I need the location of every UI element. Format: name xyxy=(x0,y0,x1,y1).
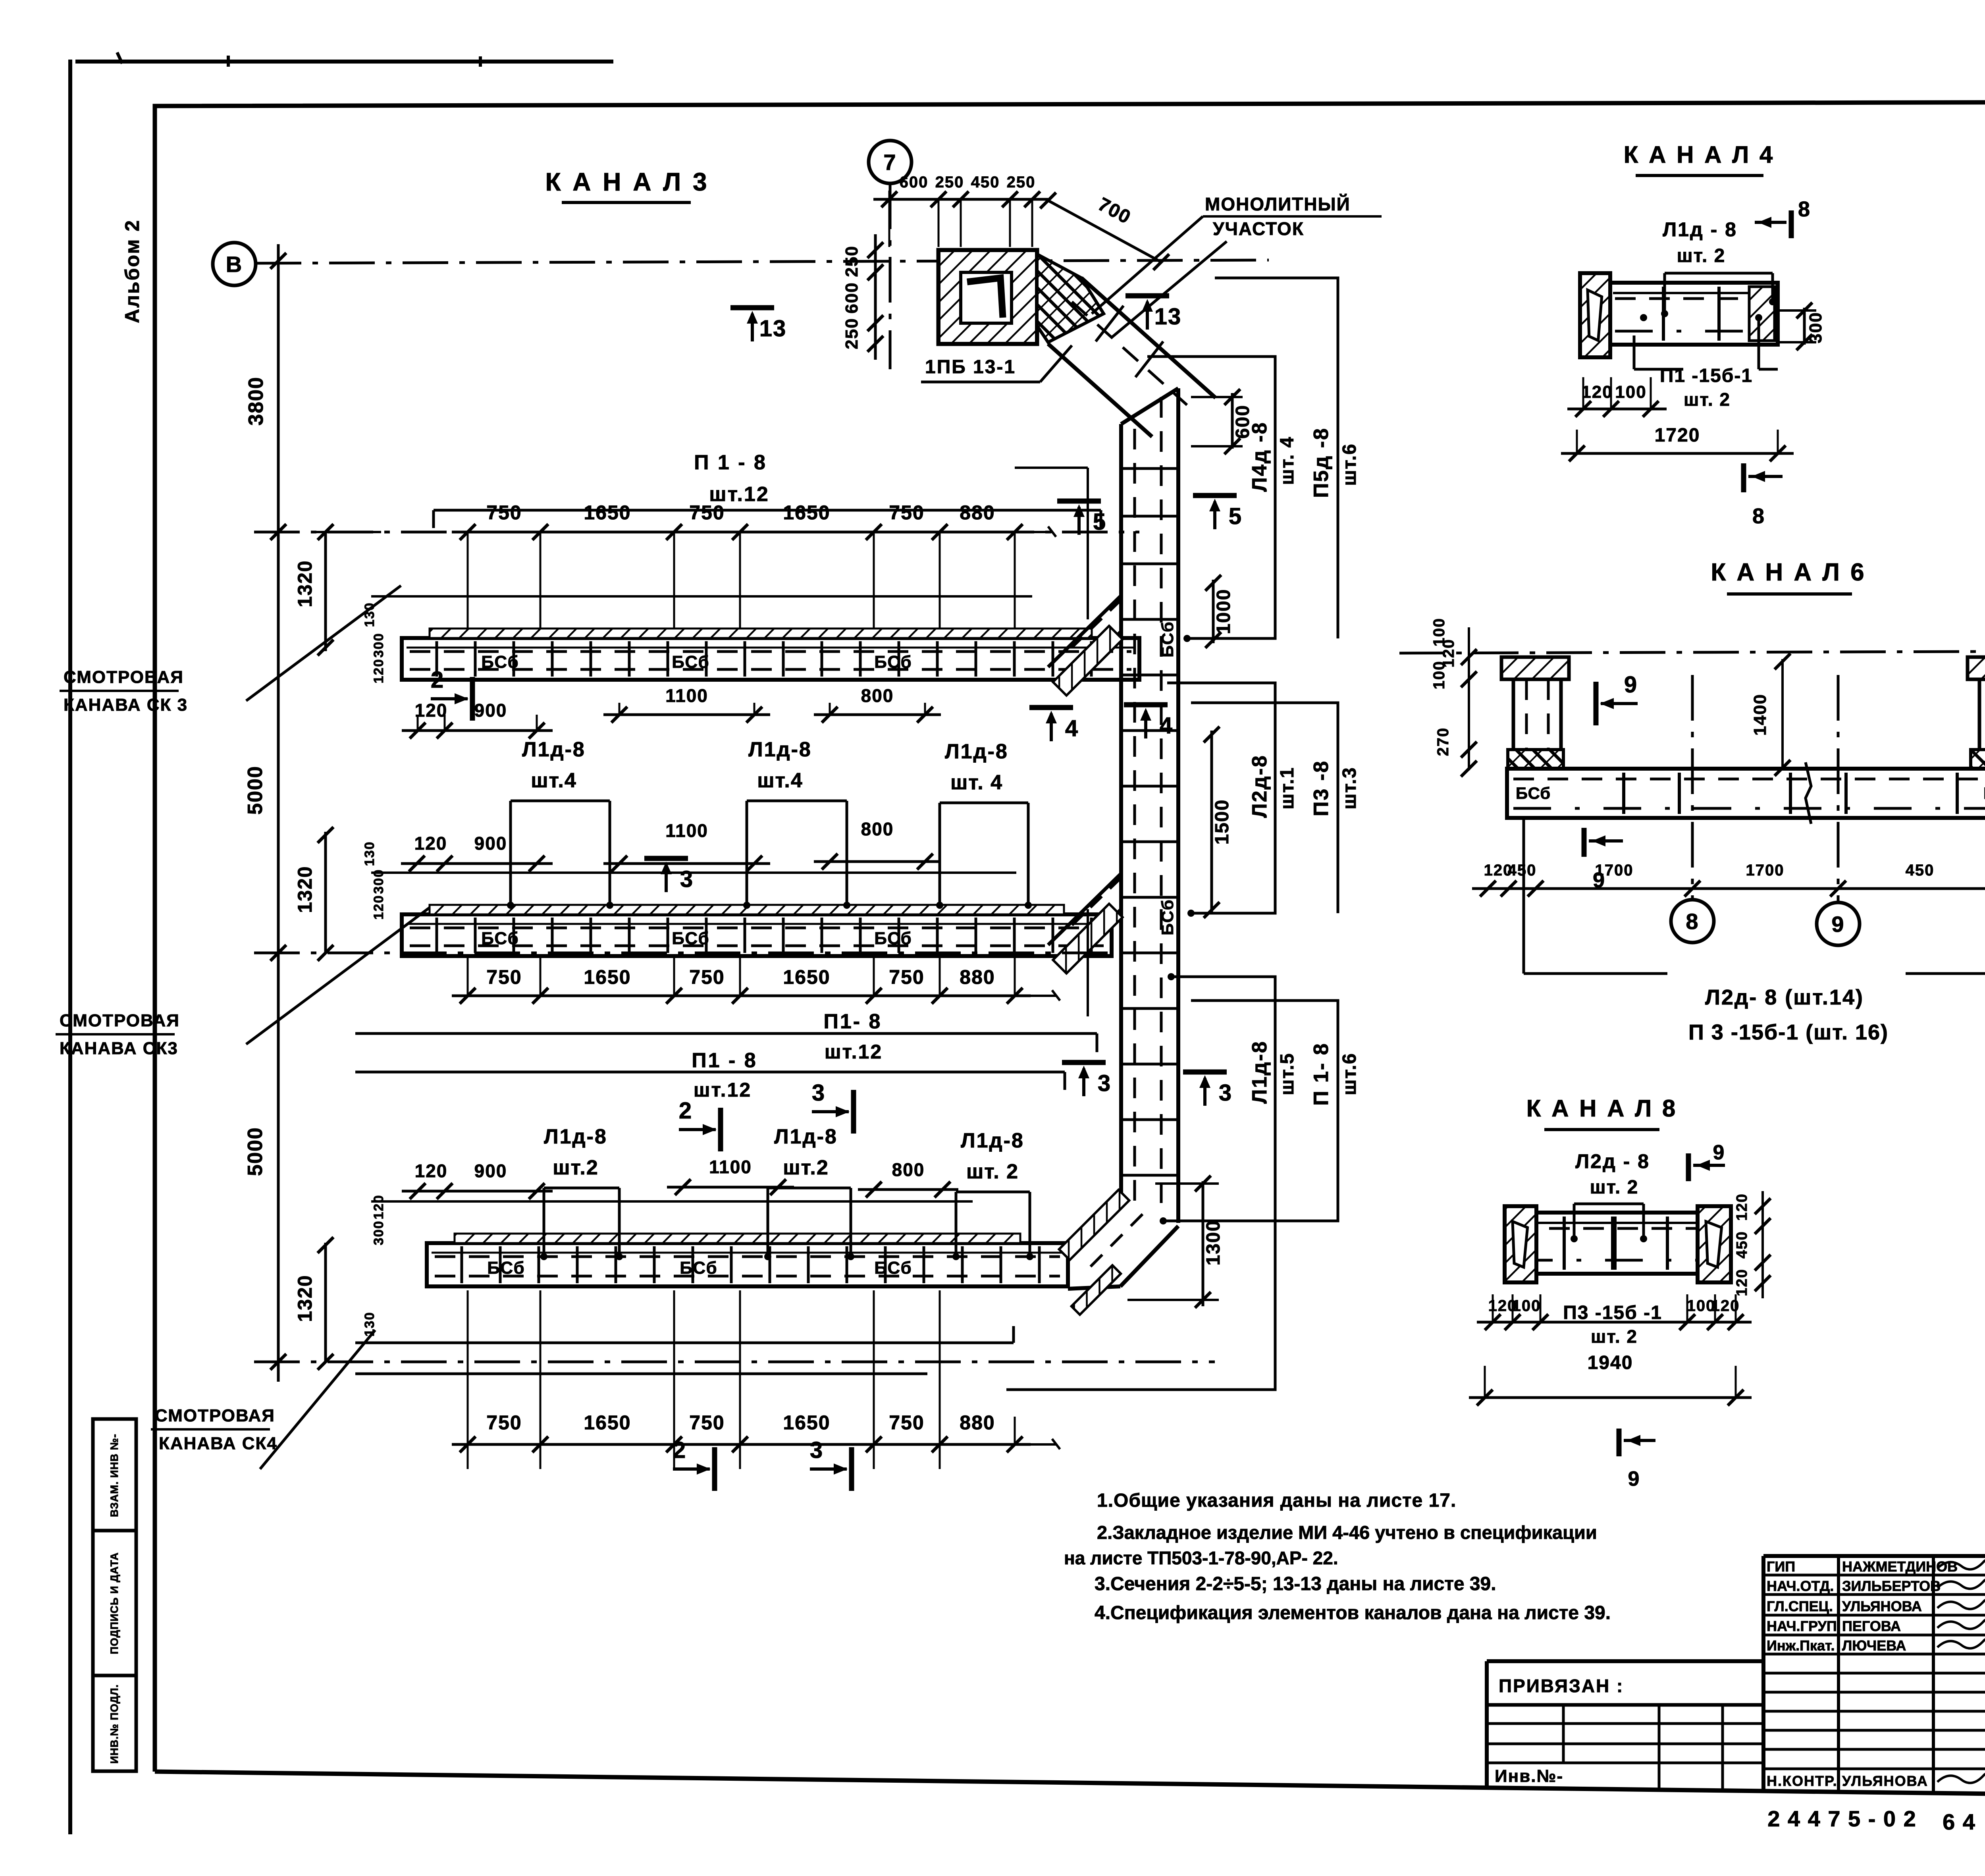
leader monolithic xyxy=(1092,216,1203,314)
leader SK4 xyxy=(260,1330,375,1469)
svg-text:1ПБ 13-1: 1ПБ 13-1 xyxy=(925,357,1016,378)
frame bottom line xyxy=(155,1772,1985,1801)
svg-text:Н.КОНТР.: Н.КОНТР. xyxy=(1767,1773,1838,1789)
svg-text:120: 120 xyxy=(371,659,386,684)
K4 dim 300 right xyxy=(1803,308,1806,345)
svg-text:ИНВ.№ ПОДЛ.: ИНВ.№ ПОДЛ. xyxy=(108,1684,120,1764)
svg-text:900: 900 xyxy=(474,700,507,721)
dim chain band C bottom xyxy=(452,1443,1031,1446)
svg-text:1650: 1650 xyxy=(783,501,830,524)
svg-text:П 1- 8: П 1- 8 xyxy=(1310,1042,1333,1105)
svg-text:900: 900 xyxy=(474,833,507,854)
page left edge line xyxy=(68,60,72,1834)
svg-text:750: 750 xyxy=(486,1411,522,1434)
svg-text:3: 3 xyxy=(812,1080,825,1106)
svg-text:БСб: БСб xyxy=(1516,784,1551,802)
signature squiggles xyxy=(1937,1558,1985,1569)
section flag 3 left lower xyxy=(1062,1060,1106,1065)
svg-text:Альбом 2: Альбом 2 xyxy=(121,219,143,323)
svg-text:1650: 1650 xyxy=(783,1411,830,1434)
svg-text:П3 -15б -1: П3 -15б -1 xyxy=(1563,1302,1662,1323)
svg-text:ЛЮЧЕВА: ЛЮЧЕВА xyxy=(1842,1637,1906,1654)
svg-text:шт.3: шт.3 xyxy=(1339,767,1360,809)
svg-text:880: 880 xyxy=(960,501,995,524)
svg-text:НАЧ.ОТД.: НАЧ.ОТД. xyxy=(1767,1578,1834,1594)
bracket mid labels xyxy=(1167,683,1275,913)
trench line above band C xyxy=(371,1200,973,1203)
svg-text:250: 250 xyxy=(1007,174,1036,191)
svg-text:шт. 2: шт. 2 xyxy=(1684,389,1731,410)
svg-text:800: 800 xyxy=(861,685,894,706)
svg-text:120: 120 xyxy=(1734,1269,1750,1296)
trench line above band B xyxy=(371,871,1016,874)
K6 band break mark xyxy=(1806,762,1811,824)
svg-text:9: 9 xyxy=(1713,1141,1725,1164)
svg-text:9: 9 xyxy=(1831,912,1844,937)
label bracket box xyxy=(939,803,941,905)
svg-text:ГЛ.СПЕЦ.: ГЛ.СПЕЦ. xyxy=(1767,1598,1833,1614)
dim chain above square 600 250 450 250 xyxy=(873,198,1048,201)
svg-text:ПРИВЯЗАН :: ПРИВЯЗАН : xyxy=(1499,1675,1624,1696)
svg-text:шт. 2: шт. 2 xyxy=(966,1160,1019,1183)
leader 1PB xyxy=(1040,345,1072,382)
svg-text:СМОТРОВАЯ: СМОТРОВАЯ xyxy=(64,667,184,687)
section flag 3 mid xyxy=(644,856,688,861)
svg-text:450: 450 xyxy=(1734,1231,1750,1258)
row2 dims mid xyxy=(401,862,553,865)
svg-text:4: 4 xyxy=(1160,713,1173,738)
leader SK3-2 xyxy=(246,905,433,1044)
svg-text:на листе ТП503-1-78-90,АР- 22.: на листе ТП503-1-78-90,АР- 22. xyxy=(1064,1548,1338,1568)
svg-text:ВЗАМ. ИНВ №-: ВЗАМ. ИНВ №- xyxy=(108,1434,120,1517)
K6 left wall xyxy=(1512,679,1515,750)
svg-text:БСб: БСб xyxy=(874,1258,912,1278)
svg-text:600: 600 xyxy=(900,174,929,191)
svg-text:Л1д-8: Л1д-8 xyxy=(748,738,812,761)
svg-text:1650: 1650 xyxy=(584,501,631,524)
svg-text:5: 5 xyxy=(1229,503,1242,529)
section flag 2 under band A xyxy=(470,677,475,721)
leader SK3-1 xyxy=(246,586,401,701)
svg-text:100: 100 xyxy=(1512,1297,1541,1315)
svg-text:ПЕГОВА: ПЕГОВА xyxy=(1842,1618,1901,1634)
bracket band A label xyxy=(434,509,1101,512)
svg-text:БСб: БСб xyxy=(481,652,519,672)
svg-text:Л1д-8: Л1д-8 xyxy=(522,738,586,761)
svg-text:100: 100 xyxy=(1615,382,1646,402)
svg-text:7: 7 xyxy=(883,150,896,175)
svg-text:2.Закладное изделие МИ 4-46 уч: 2.Закладное изделие МИ 4-46 учтено в спе… xyxy=(1097,1522,1597,1543)
K6 flag 9 top xyxy=(1594,682,1599,725)
svg-text:300: 300 xyxy=(371,1220,386,1246)
svg-text:1000: 1000 xyxy=(1213,589,1234,634)
svg-text:450: 450 xyxy=(1508,862,1537,879)
svg-text:1650: 1650 xyxy=(783,966,830,988)
svg-text:Л2д - 8: Л2д - 8 xyxy=(1575,1150,1650,1172)
svg-text:900: 900 xyxy=(474,1161,507,1181)
svg-text:750: 750 xyxy=(889,501,924,524)
svg-text:9: 9 xyxy=(1628,1467,1640,1490)
label bracket box xyxy=(509,801,512,905)
band A dividers xyxy=(436,641,438,677)
section flag 3 right lower xyxy=(1183,1070,1227,1075)
dim 1300 bottom right xyxy=(1202,1181,1204,1306)
svg-text:БСб: БСб xyxy=(680,1258,717,1278)
svg-text:К А Н А Л 4: К А Н А Л 4 xyxy=(1624,141,1775,168)
junction piece at band B xyxy=(1048,873,1121,945)
band C dividers xyxy=(461,1246,463,1283)
thick lintel mark inside square xyxy=(967,278,1003,318)
dim 600 right of top connector xyxy=(1231,393,1234,449)
svg-text:9: 9 xyxy=(1624,672,1638,698)
K8 dims below xyxy=(1477,1321,1752,1324)
svg-text:13: 13 xyxy=(1154,304,1182,330)
svg-text:шт. 2: шт. 2 xyxy=(1677,245,1726,266)
monolithic square outer xyxy=(939,250,1037,344)
K8 right rotated dims xyxy=(1761,1191,1764,1298)
svg-text:БСб: БСб xyxy=(1158,621,1177,657)
svg-text:Л1д-8: Л1д-8 xyxy=(961,1129,1024,1152)
svg-text:БСб: БСб xyxy=(481,929,519,948)
svg-text:1100: 1100 xyxy=(709,1157,752,1177)
axis circle B xyxy=(213,243,256,285)
svg-text:УЛЬЯНОВА: УЛЬЯНОВА xyxy=(1842,1598,1922,1614)
label bracket box xyxy=(746,801,748,905)
svg-text:шт. 2: шт. 2 xyxy=(1591,1326,1638,1347)
vertical channel dividers xyxy=(1121,467,1178,470)
svg-text:ЗИЛЬБЕРТОВ: ЗИЛЬБЕРТОВ xyxy=(1842,1578,1941,1594)
secondary vertical dim line upper 1320 xyxy=(324,532,327,651)
channel band A outline xyxy=(402,638,1139,680)
svg-text:800: 800 xyxy=(892,1159,925,1180)
section band K4 xyxy=(1607,283,1778,345)
svg-text:800: 800 xyxy=(861,819,894,839)
bracket big top labels xyxy=(1147,357,1275,638)
svg-text:К А Н А Л 3: К А Н А Л 3 xyxy=(545,168,709,196)
junction piece at band A xyxy=(1048,596,1121,667)
K8 flag 9 bottom xyxy=(1617,1429,1622,1456)
section flag 5 left xyxy=(1057,499,1101,504)
axis line B horizontal xyxy=(256,260,1269,263)
diagonal connector band edges xyxy=(1081,278,1216,398)
K6 circle 8 axis xyxy=(1691,675,1694,899)
secondary vertical dim line mid 1320 xyxy=(324,832,327,953)
svg-text:1650: 1650 xyxy=(584,966,631,988)
svg-text:2: 2 xyxy=(679,1098,692,1124)
svg-text:1.Общие указания даны на л: 1.Общие указания даны на листе 17. xyxy=(1097,1490,1456,1511)
page top edge line xyxy=(75,60,613,64)
svg-text:3: 3 xyxy=(1098,1070,1111,1096)
band C inner lines xyxy=(432,1252,1063,1254)
svg-text:Инж.Пкат.: Инж.Пкат. xyxy=(1767,1637,1835,1654)
dim 1500 xyxy=(1210,731,1213,913)
secondary vertical dim line lower 1320 xyxy=(324,1243,327,1362)
svg-text:П 3 -15б-1 (шт. 16): П 3 -15б-1 (шт. 16) xyxy=(1688,1020,1889,1044)
svg-text:П1 - 8: П1 - 8 xyxy=(692,1049,757,1072)
svg-text:8: 8 xyxy=(1686,909,1699,934)
dim chain band B bottom xyxy=(452,995,1031,997)
section band K8 xyxy=(1507,1213,1723,1274)
svg-text:120: 120 xyxy=(1734,1193,1750,1220)
K4 dims below xyxy=(1567,408,1667,411)
svg-text:450: 450 xyxy=(1906,862,1935,879)
K4 flag 8 bottom xyxy=(1741,463,1746,492)
privyazan table xyxy=(1487,1659,1763,1663)
section flag 2 above band C xyxy=(718,1108,723,1151)
svg-text:шт.6: шт.6 xyxy=(1339,443,1360,486)
svg-text:П 1 - 8: П 1 - 8 xyxy=(694,451,767,474)
hatched end block K4 left xyxy=(1580,273,1610,357)
svg-text:2 4 4 7 5 - 0 2: 2 4 4 7 5 - 0 2 xyxy=(1767,1806,1917,1831)
svg-text:1300: 1300 xyxy=(1203,1220,1224,1266)
section flag 4 left xyxy=(1029,705,1073,710)
svg-text:БСб: БСб xyxy=(672,929,709,948)
vertical channel inner dashed lines xyxy=(1133,429,1136,1207)
svg-text:750: 750 xyxy=(689,1411,725,1434)
svg-text:5000: 5000 xyxy=(244,765,267,815)
svg-text:шт.2: шт.2 xyxy=(553,1156,599,1179)
K6 right wall xyxy=(1978,679,1981,750)
svg-text:БСб: БСб xyxy=(672,652,709,672)
svg-text:3: 3 xyxy=(810,1437,823,1463)
svg-text:К А Н А Л 8: К А Н А Л 8 xyxy=(1526,1095,1677,1122)
K6 label bracket xyxy=(1522,818,1525,974)
svg-text:1320: 1320 xyxy=(294,560,316,607)
svg-text:Л1д-8: Л1д-8 xyxy=(544,1125,607,1148)
elbow dashed diagonal xyxy=(1090,1214,1143,1267)
svg-text:1320: 1320 xyxy=(294,866,316,913)
svg-text:Л4д -8: Л4д -8 xyxy=(1248,421,1271,492)
svg-text:УЛЬЯНОВА: УЛЬЯНОВА xyxy=(1842,1773,1928,1789)
K6 main band xyxy=(1507,769,1985,818)
dim 1000 xyxy=(1212,580,1215,643)
svg-text:НАЧ.ГРУП.: НАЧ.ГРУП. xyxy=(1767,1618,1841,1634)
K6 circle 9 axis xyxy=(1837,675,1840,902)
K4 bottom bracket xyxy=(1634,368,1683,371)
svg-text:Инв.№-: Инв.№- xyxy=(1495,1766,1563,1786)
svg-text:1940: 1940 xyxy=(1588,1352,1633,1373)
channel band B outline xyxy=(402,914,1112,956)
channel band C outline xyxy=(427,1243,1068,1286)
hatched end block K8 left xyxy=(1505,1206,1536,1282)
svg-text:УЧАСТОК: УЧАСТОК xyxy=(1213,218,1304,239)
svg-text:Л1д-8: Л1д-8 xyxy=(1248,1040,1271,1104)
svg-text:Л1д-8: Л1д-8 xyxy=(945,740,1008,763)
K6 left flange hatched xyxy=(1501,657,1569,679)
svg-text:880: 880 xyxy=(960,1411,995,1434)
bracket low labels xyxy=(1006,977,1275,1390)
K8 1940 dim xyxy=(1469,1396,1752,1399)
diagonal connector dashed centerlines xyxy=(1072,302,1187,405)
svg-text:300: 300 xyxy=(371,633,386,658)
svg-text:К А Н А Л 6: К А Н А Л 6 xyxy=(1711,559,1866,586)
svg-text:120: 120 xyxy=(371,895,386,920)
band B inner lines xyxy=(407,923,1107,925)
svg-text:8: 8 xyxy=(1752,504,1765,528)
connector divider ticks xyxy=(1096,306,1124,341)
svg-text:880: 880 xyxy=(960,966,995,988)
section flag 5 right xyxy=(1193,493,1237,498)
row1 dims under band A xyxy=(402,729,553,732)
svg-text:13: 13 xyxy=(759,316,787,341)
svg-text:КАНАВА СК4: КАНАВА СК4 xyxy=(159,1434,278,1453)
svg-text:9: 9 xyxy=(1593,868,1605,892)
svg-text:1400: 1400 xyxy=(1750,694,1770,736)
svg-text:270: 270 xyxy=(1434,727,1452,756)
K6 dim chain bottom xyxy=(1472,887,1985,890)
bracket line 2 below band B xyxy=(355,1071,1065,1074)
svg-text:Л1д-8: Л1д-8 xyxy=(774,1125,838,1148)
band A hatch strip above xyxy=(430,629,1092,638)
svg-text:Л2д- 8 (шт.14): Л2д- 8 (шт.14) xyxy=(1705,985,1864,1009)
svg-text:250: 250 xyxy=(935,174,964,191)
bracket line 1 below band B xyxy=(355,1032,1097,1035)
svg-text:КАНАВА СК3: КАНАВА СК3 xyxy=(60,1039,178,1058)
label bracket box xyxy=(955,1192,958,1257)
signature table xyxy=(1761,1556,1765,1791)
band B hatch strip above xyxy=(430,905,1064,914)
left margin stamp strip xyxy=(93,1419,136,1771)
axis line band A with dim chain xyxy=(254,531,1139,534)
left vertical dimension line xyxy=(277,244,280,1382)
svg-text:3: 3 xyxy=(680,866,694,892)
svg-text:750: 750 xyxy=(486,501,522,524)
K8 flag 9 top xyxy=(1686,1153,1691,1181)
K4 right inner hatch xyxy=(1749,287,1775,341)
section flag 13 right xyxy=(1125,293,1169,299)
svg-text:МОНОЛИТНЫЙ: МОНОЛИТНЫЙ xyxy=(1205,194,1351,214)
monolithic square inner white box xyxy=(961,272,1012,323)
svg-text:БСб: БСб xyxy=(874,929,912,948)
svg-text:шт.12: шт.12 xyxy=(709,483,769,506)
svg-text:1100: 1100 xyxy=(665,820,708,841)
svg-text:750: 750 xyxy=(689,966,725,988)
svg-text:шт.4: шт.4 xyxy=(531,769,577,792)
svg-text:СМОТРОВАЯ: СМОТРОВАЯ xyxy=(155,1406,275,1425)
svg-text:4.Спецификация элементов канал: 4.Спецификация элементов каналов дана на… xyxy=(1095,1602,1611,1623)
svg-text:БСб: БСб xyxy=(487,1258,525,1278)
diagonal dim 700 xyxy=(1048,201,1161,262)
svg-text:Л2д-8: Л2д-8 xyxy=(1248,754,1271,818)
svg-text:шт. 4: шт. 4 xyxy=(950,771,1003,794)
trench line above band A xyxy=(371,595,1032,598)
K4 label bracket xyxy=(1663,273,1666,314)
svg-text:В: В xyxy=(226,252,243,277)
axis circle 7 xyxy=(869,141,912,183)
svg-text:5000: 5000 xyxy=(244,1127,267,1176)
svg-text:1500: 1500 xyxy=(1212,799,1233,845)
hatched end block K8 right xyxy=(1698,1206,1731,1282)
elbow hatch edge marks xyxy=(1059,1190,1129,1260)
svg-text:1650: 1650 xyxy=(584,1411,631,1434)
svg-text:шт.12: шт.12 xyxy=(694,1079,752,1101)
K6 flag 9 bottom xyxy=(1582,828,1587,857)
K8 label bracket xyxy=(1573,1204,1576,1239)
svg-text:шт. 2: шт. 2 xyxy=(1590,1177,1639,1198)
bracket lines below band C xyxy=(355,1342,1014,1344)
svg-text:130: 130 xyxy=(362,841,377,866)
svg-text:130: 130 xyxy=(362,1312,377,1337)
vertical dim chain left of square 250 600 250 xyxy=(874,234,877,360)
svg-text:250: 250 xyxy=(842,318,861,349)
band B dividers xyxy=(436,918,438,953)
band A broken extension right xyxy=(1015,526,1056,537)
svg-text:П5д -8: П5д -8 xyxy=(1310,427,1333,498)
svg-text:1720: 1720 xyxy=(1655,425,1700,446)
svg-text:шт.6: шт.6 xyxy=(1339,1053,1360,1095)
band C hatch strip above xyxy=(455,1234,1020,1243)
svg-text:450: 450 xyxy=(971,174,1000,191)
svg-text:БСб: БСб xyxy=(1983,784,1985,802)
svg-text:ГИП: ГИП xyxy=(1767,1558,1795,1575)
svg-text:4: 4 xyxy=(1065,715,1079,741)
svg-text:3: 3 xyxy=(1219,1080,1232,1106)
section flag 3 above band C xyxy=(851,1090,856,1134)
svg-text:2: 2 xyxy=(431,667,444,693)
svg-text:СМОТРОВАЯ: СМОТРОВАЯ xyxy=(60,1011,180,1030)
axis line 7 vertical xyxy=(889,183,892,369)
svg-text:600: 600 xyxy=(842,282,861,313)
K6 left crosshatch block xyxy=(1508,750,1563,769)
svg-text:Л1д - 8: Л1д - 8 xyxy=(1663,218,1737,241)
row dims above band C xyxy=(402,1190,553,1193)
section flag 13 left xyxy=(730,305,774,310)
svg-text:шт. 4: шт. 4 xyxy=(1277,436,1298,485)
svg-text:750: 750 xyxy=(486,966,522,988)
svg-text:БСб: БСб xyxy=(874,652,912,672)
svg-text:КАНАВА СК 3: КАНАВА СК 3 xyxy=(64,695,188,715)
long verticals below band C xyxy=(467,1290,469,1469)
svg-text:1100: 1100 xyxy=(665,685,708,706)
svg-text:П1- 8: П1- 8 xyxy=(824,1010,882,1033)
K4 flag 8 top xyxy=(1789,210,1794,238)
band A inner lines xyxy=(407,647,1135,649)
svg-text:6 4: 6 4 xyxy=(1943,1809,1976,1834)
svg-text:750: 750 xyxy=(889,966,924,988)
section flag 4 right xyxy=(1124,702,1168,708)
K6 right flange hatched xyxy=(1968,657,1985,679)
svg-text:шт.1: шт.1 xyxy=(1277,767,1298,809)
svg-text:300: 300 xyxy=(1806,312,1825,343)
svg-text:120: 120 xyxy=(415,1161,448,1181)
svg-text:шт.2: шт.2 xyxy=(783,1156,829,1179)
label bracket box xyxy=(543,1188,545,1257)
svg-text:120: 120 xyxy=(414,833,447,854)
svg-text:шт.5: шт.5 xyxy=(1277,1053,1298,1095)
svg-text:2: 2 xyxy=(673,1437,686,1463)
svg-text:120: 120 xyxy=(1581,382,1613,402)
svg-text:шт.4: шт.4 xyxy=(757,769,803,792)
axis line band C xyxy=(254,1361,1215,1363)
svg-text:750: 750 xyxy=(889,1411,924,1434)
svg-text:120: 120 xyxy=(1711,1297,1740,1315)
section flag 3 bottom xyxy=(849,1447,854,1491)
svg-text:100: 100 xyxy=(1430,661,1448,690)
svg-text:120: 120 xyxy=(415,700,448,721)
svg-text:шт.12: шт.12 xyxy=(825,1041,883,1063)
axis line band B xyxy=(254,952,1112,954)
K6 right crosshatch block xyxy=(1971,750,1985,769)
svg-text:8: 8 xyxy=(1798,197,1811,221)
label bracket box xyxy=(767,1188,769,1257)
svg-text:3800: 3800 xyxy=(245,376,268,426)
K6 axis line xyxy=(1399,651,1985,653)
svg-text:3.Сечения 2-2÷5-5; 13-13 дан: 3.Сечения 2-2÷5-5; 13-13 даны на листе 3… xyxy=(1095,1573,1496,1595)
svg-text:1700: 1700 xyxy=(1746,862,1785,879)
section flag 2 bottom xyxy=(712,1447,717,1491)
bottom elbow to band C xyxy=(1067,1197,1121,1251)
vertical channel top 45 cut xyxy=(1121,388,1178,424)
